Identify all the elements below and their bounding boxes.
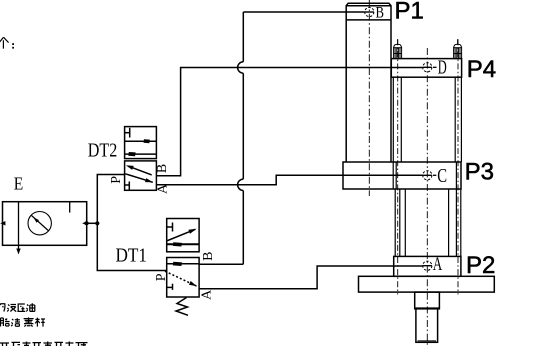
- DT2 cross flow line 2: [125, 174, 153, 183]
- valve DT2: [125, 127, 157, 191]
- wire DT2.A right with step up to P3.C: [156, 175, 422, 185]
- DT1 arrowhead pilot down-right: [189, 281, 197, 286]
- E drain stem: [18, 245, 20, 249]
- DT1 flow line left thick: [167, 243, 199, 245]
- pump/filter unit E: [3, 202, 87, 249]
- chinese text line: 腔活塞杆: [1, 317, 46, 326]
- svg-text:D: D: [438, 57, 447, 79]
- tie rod left centerline: [397, 39, 399, 294]
- piston rod lower threaded: [416, 309, 438, 343]
- cylinder P1 body outline: [346, 3, 391, 162]
- svg-text:B: B: [155, 164, 170, 173]
- wire E right port: [87, 222, 98, 224]
- DT2 flow line right: [125, 140, 157, 142]
- svg-text:A: A: [156, 183, 171, 194]
- block P2: [394, 256, 461, 276]
- svg-text:P1: P1: [395, 0, 424, 24]
- guide rod right P3-P2: [455, 189, 457, 256]
- DT1 spring: [176, 298, 188, 316]
- piston rod upper: [415, 292, 440, 309]
- E unit body: [3, 202, 87, 246]
- DT1 arrowhead left top: [173, 242, 182, 246]
- E gauge circle: [28, 212, 51, 235]
- E left port arrow: [0, 221, 5, 225]
- port circle B: [365, 7, 374, 16]
- DT2 blocked port top: [125, 132, 130, 134]
- guide rod left P3-P2: [394, 189, 396, 256]
- svg-text:E: E: [14, 174, 23, 194]
- P1 centerline: [368, 0, 370, 196]
- E gauge needle arrowhead: [33, 217, 39, 223]
- DT2 arrowhead diag down-right: [145, 178, 153, 182]
- E internal stub: [69, 202, 71, 213]
- svg-text:P: P: [109, 176, 124, 184]
- wire DT1.A right step up to P2.A: [199, 266, 423, 289]
- wire supply E to valves: [97, 175, 166, 271]
- DT1 arrowhead left bottom: [173, 262, 182, 266]
- port circle D: [423, 63, 432, 72]
- valve DT1: [165, 219, 199, 298]
- DT2 cross flow line 1: [128, 166, 151, 175]
- cylinder P1 cap inner line: [346, 5, 391, 7]
- junction dot at E outlet: [85, 221, 89, 225]
- wire P1-top to DT1.B horizontal top: [243, 11, 364, 13]
- bolt right on P4: [454, 39, 462, 58]
- DT2 blocked port bottom: [125, 184, 130, 186]
- svg-text:A: A: [200, 289, 215, 300]
- DT2 flow line left: [125, 153, 157, 155]
- bridge arc at y=184.8: [238, 179, 244, 190]
- tie rod right P4-P3: [454, 77, 456, 162]
- DT1 diagonal flow line: [167, 229, 196, 241]
- DT1 position box 1: [167, 219, 199, 252]
- wire vertical x=243.3 with jump bridges: [242, 12, 244, 264]
- svg-text:C: C: [437, 165, 447, 187]
- plate P4: [391, 59, 461, 78]
- tie rod right centerline: [457, 39, 459, 294]
- wire DT1.B to vertical: [199, 263, 243, 265]
- port circle C: [423, 171, 432, 180]
- DT2 arrowhead right: [144, 139, 150, 143]
- DT1 blocked port bottom: [167, 286, 173, 288]
- flange plate: [359, 276, 495, 292]
- wire DT2.B up-right to P4.D: [156, 68, 422, 176]
- port circle A: [423, 261, 432, 270]
- bridge arc at y=67.5: [238, 62, 244, 73]
- cylinder barrel walls: [404, 189, 406, 256]
- cylinder P1 cap bottom line: [346, 19, 391, 21]
- plate P3 rod holes: [392, 162, 394, 189]
- DT1 flow line left: [167, 263, 199, 265]
- E right port arrow: [82, 221, 87, 225]
- DT1 blocked port top: [167, 226, 173, 228]
- tie rod left P4-P3: [392, 77, 394, 162]
- chinese text line: 的液压油: [0, 303, 35, 311]
- DT2 position box 2: [125, 161, 157, 190]
- plate P3: [343, 162, 461, 189]
- junction dot at supply line: [95, 221, 99, 225]
- chinese text top-left: 个：: [0, 37, 9, 48]
- svg-text:DT1: DT1: [116, 244, 148, 266]
- chinese text bottom clipped row: [0, 342, 88, 346]
- DT2 arrowhead diag up-left: [126, 165, 134, 170]
- DT1 arrowhead diag up-right: [188, 229, 196, 234]
- E gauge needle: [32, 216, 49, 232]
- DT2 arrowhead left: [128, 152, 135, 156]
- DT2 position box 1: [125, 127, 157, 159]
- E drain down arrow: [16, 249, 20, 255]
- DT1 dashed pilot line: [165, 271, 197, 286]
- E internal drain line: [18, 202, 20, 246]
- svg-text:P2: P2: [466, 252, 495, 279]
- svg-text:A: A: [433, 254, 443, 275]
- svg-text:P4: P4: [467, 56, 496, 83]
- svg-text:DT2: DT2: [88, 140, 118, 162]
- svg-text:P: P: [154, 273, 169, 281]
- DT1 position box 2: [167, 258, 199, 298]
- svg-text:B: B: [376, 4, 385, 21]
- svg-text:B: B: [201, 252, 216, 261]
- press centerline: [426, 48, 428, 346]
- bolt left on P4: [394, 39, 402, 58]
- svg-text:P3: P3: [465, 159, 494, 186]
